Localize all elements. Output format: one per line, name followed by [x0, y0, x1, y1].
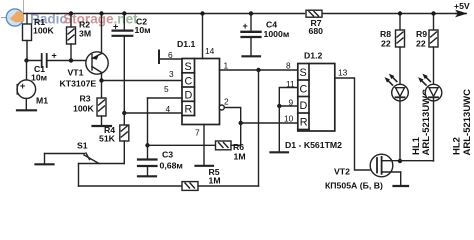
- capacitor C3: [138, 145, 157, 176]
- wire down to bottom: [258, 70, 260, 186]
- scan hairline: [22, 0, 24, 14]
- svg-text:3M: 3M: [79, 29, 91, 39]
- svg-text:11: 11: [286, 79, 295, 89]
- resistor R4: [120, 125, 129, 164]
- svg-text:KT3107E: KT3107E: [60, 79, 97, 89]
- label C4: [264, 20, 290, 39]
- node F (R6/pin10): [239, 121, 243, 125]
- pin 5 wire: [148, 98, 183, 145]
- wire pin2: [224, 108, 240, 124]
- svg-text:+: +: [113, 22, 118, 32]
- svg-text:14: 14: [205, 46, 215, 56]
- pin 7: [203, 125, 205, 166]
- wire pin4: [124, 112, 182, 114]
- node H (9/11 gnd): [277, 104, 281, 108]
- svg-text:R9: R9: [416, 29, 427, 39]
- pin 2 output bubble: [219, 105, 224, 110]
- ground: [93, 125, 112, 127]
- svg-text:C: C: [185, 76, 193, 88]
- node D (pin4 tap): [122, 111, 126, 115]
- +5V arrow: [456, 13, 466, 15]
- node C (collector/R3): [99, 78, 103, 82]
- resistor R2: [67, 14, 76, 61]
- wire to ground: [278, 106, 280, 152]
- IC D1.1: [182, 59, 220, 125]
- svg-text:4: 4: [166, 104, 171, 114]
- label R9: [416, 29, 427, 49]
- wire: [47, 60, 92, 62]
- label HL1: [411, 89, 432, 156]
- resistor R8: [396, 14, 405, 88]
- label R7: [309, 18, 324, 36]
- svg-text:680: 680: [309, 26, 324, 36]
- label C3: [160, 150, 183, 171]
- svg-text:6: 6: [168, 50, 173, 60]
- svg-text:R8: R8: [380, 29, 391, 39]
- ground: [271, 151, 289, 153]
- svg-text:3: 3: [169, 69, 174, 79]
- svg-text:D1.2: D1.2: [304, 51, 323, 61]
- svg-text:10м: 10м: [135, 25, 151, 35]
- svg-text:C3: C3: [162, 150, 173, 160]
- svg-text:VT1: VT1: [68, 68, 84, 78]
- svg-text:10: 10: [284, 114, 294, 124]
- svg-text:2: 2: [224, 97, 229, 107]
- capacitor C1: [42, 54, 47, 67]
- svg-text:C: C: [300, 84, 308, 96]
- svg-text:51K: 51K: [99, 134, 116, 144]
- watermark logo: [2, 9, 25, 26]
- ground: [243, 55, 261, 57]
- svg-text:0,68м: 0,68м: [160, 161, 183, 171]
- microphone M1: [17, 61, 36, 110]
- capacitor C4: [242, 14, 261, 57]
- wire (C1 input): [27, 60, 42, 62]
- pin 13 wire: [335, 78, 377, 170]
- bottom wire with R5: [79, 185, 183, 187]
- ground: [36, 163, 54, 165]
- label C1: [31, 64, 47, 83]
- transistor VT2: [370, 154, 401, 185]
- label VT2: [325, 167, 383, 191]
- svg-text:9: 9: [289, 98, 294, 108]
- wire collector to pin3: [102, 80, 183, 82]
- wire drain to HL2: [400, 160, 434, 162]
- svg-text:8: 8: [286, 61, 291, 71]
- svg-text:R: R: [185, 104, 193, 116]
- svg-text:КП505А (Б, В): КП505А (Б, В): [325, 181, 383, 191]
- node B (R2/base): [69, 58, 73, 62]
- resistor R1: [23, 14, 32, 61]
- pin 3: [169, 69, 174, 79]
- label D1.2: [304, 51, 323, 61]
- svg-text:VT2: VT2: [334, 167, 350, 177]
- svg-text:22: 22: [416, 39, 426, 49]
- svg-text:ARL-5213UWC: ARL-5213UWC: [462, 89, 473, 156]
- svg-text:S: S: [185, 61, 192, 73]
- pin 4: [166, 104, 171, 114]
- svg-text:100K: 100K: [73, 104, 94, 114]
- pin 14: [202, 14, 204, 59]
- svg-text:1000м: 1000м: [264, 29, 290, 39]
- capacitor C2: [113, 14, 133, 126]
- node I (drain/HL): [398, 159, 402, 163]
- label D1.1: [177, 39, 196, 49]
- LED HL2: [418, 74, 442, 161]
- svg-text:R3: R3: [80, 94, 91, 104]
- svg-text:R6: R6: [233, 142, 244, 152]
- ground: [394, 185, 409, 187]
- ground: [138, 175, 156, 177]
- label R2: [79, 20, 91, 39]
- svg-text:+: +: [20, 81, 25, 91]
- transistor VT1: [86, 14, 108, 81]
- resistor R9: [429, 14, 438, 88]
- wire rail right of R7: [322, 13, 457, 15]
- node G (C3/R6/pin5): [145, 143, 149, 147]
- IC D1.2: [298, 64, 335, 132]
- svg-text:D: D: [185, 90, 193, 102]
- label HL2: [452, 89, 474, 156]
- svg-text:+: +: [52, 51, 57, 61]
- svg-text:+: +: [243, 21, 248, 31]
- wire pin10: [241, 122, 298, 124]
- svg-text:1: 1: [224, 61, 229, 71]
- power rail: [24, 13, 305, 15]
- pin 9 wire: [279, 105, 298, 107]
- label D1 type: [285, 140, 342, 150]
- svg-text:100K: 100K: [33, 26, 54, 36]
- resistor R7: [306, 10, 322, 17]
- label R6: [233, 142, 246, 162]
- svg-text:R: R: [300, 117, 308, 129]
- wire to R6: [148, 144, 216, 146]
- resistor R3: [97, 81, 106, 126]
- ground: [17, 109, 36, 111]
- svg-text:D1 - K561TM2: D1 - K561TM2: [285, 140, 342, 150]
- svg-text:S1: S1: [77, 141, 88, 151]
- svg-text:7: 7: [195, 128, 200, 138]
- svg-text:HL2: HL2: [452, 137, 463, 155]
- label R4: [99, 125, 116, 144]
- label S1: [77, 141, 88, 151]
- label R8: [380, 29, 391, 49]
- svg-text:D1.1: D1.1: [177, 39, 196, 49]
- svg-text:5: 5: [164, 84, 169, 94]
- svg-text:1M: 1M: [234, 152, 246, 162]
- pin 1 wire to D1.2 pin 8: [220, 69, 298, 71]
- node E (S1 line tap): [256, 68, 260, 72]
- label R5: [209, 167, 221, 186]
- resistor R6: [216, 141, 232, 150]
- pin 6 touch terminal E1: [159, 51, 182, 64]
- svg-text:S: S: [300, 67, 307, 79]
- label C2: [135, 17, 151, 36]
- switch S1: [45, 153, 125, 186]
- label VT1: [60, 68, 97, 89]
- svg-text:1M: 1M: [209, 176, 221, 186]
- pin 11 wire: [279, 88, 298, 107]
- svg-text:D: D: [300, 100, 308, 112]
- watermark text: [30, 12, 138, 27]
- node A (R1/M1/C1): [24, 58, 28, 62]
- label M1: [36, 96, 48, 106]
- resistor R5: [182, 182, 198, 191]
- svg-text:13: 13: [338, 68, 348, 78]
- LED HL1: [385, 74, 409, 161]
- label R1: [33, 17, 54, 36]
- svg-text:22: 22: [381, 39, 391, 49]
- label R3: [73, 94, 94, 114]
- svg-text:M1: M1: [36, 96, 48, 106]
- svg-text:+5V: +5V: [454, 1, 470, 11]
- svg-text:10м: 10м: [31, 73, 47, 83]
